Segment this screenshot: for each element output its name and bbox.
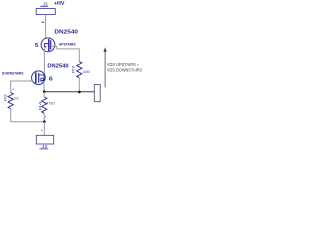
svg-text:DOWNSTAIRS: DOWNSTAIRS <box>2 71 24 76</box>
transistor Q6 <box>32 71 46 85</box>
wire to J2 <box>43 122 45 135</box>
wire bus to R4 <box>43 92 45 97</box>
svg-text:J2: J2 <box>42 144 48 150</box>
svg-text:R2: R2 <box>3 93 8 101</box>
svg-text:5: 5 <box>35 43 39 49</box>
wire R4 to lower bus <box>43 113 45 121</box>
junction dot C <box>43 120 46 123</box>
svg-text:470Ω: 470Ω <box>46 101 55 105</box>
wire J3 to Q5 drain <box>45 15 47 38</box>
svg-text:DN2540: DN2540 <box>47 64 68 70</box>
resistor R3 <box>71 62 91 78</box>
svg-text:UPSTAIRS: UPSTAIRS <box>59 42 76 47</box>
annotation arrow <box>103 47 106 87</box>
wire Q5 gate to R3 <box>51 46 79 61</box>
pin 1 tick of J3 <box>41 21 44 23</box>
pin mark near R4 bottom <box>45 116 46 118</box>
svg-text:100: 100 <box>14 97 19 101</box>
transistor Q5 <box>41 38 55 52</box>
resistor R2 <box>3 93 19 109</box>
pin 2 mark of R2 <box>12 88 14 90</box>
wire R3 to bus <box>78 78 80 92</box>
wire Q5 source to Q6 drain <box>43 47 45 75</box>
wire R2 to lower bus <box>11 109 45 122</box>
resistor R4 470 <box>38 97 55 113</box>
connector J3 <box>36 1 55 14</box>
svg-text:R3: R3 <box>71 65 76 73</box>
svg-text:VDS DOWNSTAIRS: VDS DOWNSTAIRS <box>107 67 142 72</box>
svg-text:100: 100 <box>83 69 91 74</box>
junction dot B <box>78 91 81 94</box>
connector J2 <box>36 135 53 150</box>
svg-text:R4: R4 <box>38 101 42 110</box>
svg-text:+HV: +HV <box>54 1 65 7</box>
annotation text VDS <box>107 62 142 73</box>
pin 1 tick of J2 <box>41 129 42 131</box>
junction dot A <box>43 90 46 93</box>
svg-text:VDS UPSTAIRS =: VDS UPSTAIRS = <box>107 62 140 67</box>
connector J1 (right box) <box>94 85 100 102</box>
svg-text:DN2540: DN2540 <box>54 29 78 35</box>
wire Q6 gate to R2 <box>11 81 34 93</box>
svg-text:6: 6 <box>49 77 54 83</box>
bus node (source bus) <box>44 91 94 93</box>
wire Q6 source to bus <box>43 81 45 92</box>
